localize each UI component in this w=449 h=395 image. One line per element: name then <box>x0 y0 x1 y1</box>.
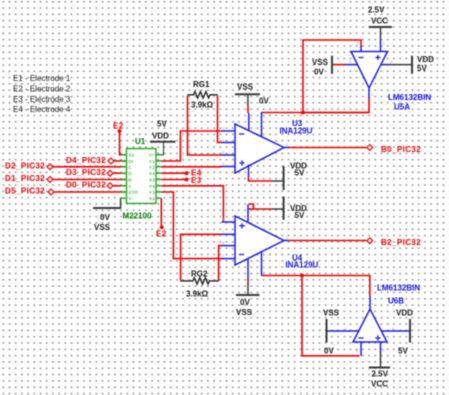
svg-text:RG1: RG1 <box>193 80 210 89</box>
wire U1 row6 to U4 IN+ <box>161 186 223 222</box>
svg-text:D0_PIC32: D0_PIC32 <box>66 181 106 190</box>
svg-text:V-: V- <box>128 196 133 202</box>
wire U4 gnd pin4 red segment <box>247 279 249 284</box>
svg-text:E2 - Electrode 2: E2 - Electrode 2 <box>13 84 71 93</box>
svg-text:0V: 0V <box>314 68 324 77</box>
wire D0_PIC32 to U1 <box>113 185 127 187</box>
svg-text:Y3: Y3 <box>149 190 155 196</box>
svg-text:D2_PIC32: D2_PIC32 <box>5 162 45 171</box>
svg-text:VSS: VSS <box>312 58 329 67</box>
node junction U5A/U3 ref <box>301 111 305 115</box>
svg-text:2.5V: 2.5V <box>368 6 385 15</box>
svg-text:Y1: Y1 <box>149 159 155 165</box>
svg-text:E3: E3 <box>191 176 202 185</box>
VDD rail above U1 <box>150 142 176 155</box>
svg-text:D3_PIC32: D3_PIC32 <box>66 168 106 177</box>
wire E2 top to U1 pin X2 <box>120 131 127 155</box>
svg-text:X1: X1 <box>149 196 155 202</box>
junction dots <box>118 111 305 278</box>
wire U1 row8 to E2 flag <box>160 198 162 226</box>
wire U5A power left red segment <box>333 64 345 66</box>
svg-text:VSS: VSS <box>94 223 111 232</box>
wire RG1 left lead to U3 RG <box>188 96 222 156</box>
wire U3 V+ pin7 to VDD bar <box>249 177 273 181</box>
node D0_PIC32 diamond <box>107 183 113 189</box>
svg-text:B2_PIC32: B2_PIC32 <box>381 238 421 247</box>
node D1_PIC32 diamond <box>47 177 53 183</box>
svg-text:E2: E2 <box>156 230 167 239</box>
svg-text:D: D <box>128 171 132 177</box>
svg-text:D5_PIC32: D5_PIC32 <box>5 187 45 196</box>
node D2_PIC32 diamond <box>47 164 53 170</box>
VSS rail above U3 <box>235 94 260 105</box>
svg-text:STR: STR <box>128 190 138 196</box>
svg-text:DI: DI <box>128 159 133 165</box>
wire U4 V+ pin7 to VDD bar <box>248 204 272 209</box>
wire U1 row7 to U4 IN- <box>161 192 222 259</box>
wire D3_PIC32 to U1 <box>113 172 127 174</box>
wire U1 row5 to E3 flag <box>161 179 185 181</box>
svg-text:VCC: VCC <box>371 379 388 388</box>
wire U1 row4 to E4 flag <box>161 172 185 174</box>
svg-text:5V: 5V <box>398 347 408 356</box>
svg-text:Y4: Y4 <box>149 184 155 190</box>
svg-text:0V: 0V <box>324 347 334 356</box>
resistor RG1 <box>188 92 218 98</box>
svg-text:VSS: VSS <box>237 83 254 92</box>
wire U4 output to B2 diamond <box>289 240 367 242</box>
svg-text:2.5V: 2.5V <box>372 370 389 379</box>
wire U5A loop: output down-left-up-right to inverting input <box>303 40 369 113</box>
analog switch U1 <box>121 137 162 220</box>
svg-text:3.9kΩ: 3.9kΩ <box>186 290 209 299</box>
wire U4 ref pin5 to junction <box>262 275 303 277</box>
wire U1 row2 to U3 IN- <box>161 131 221 161</box>
VSS bar left of U5A <box>331 56 333 74</box>
svg-text:VSS: VSS <box>323 309 340 318</box>
svg-text:5V: 5V <box>157 120 167 129</box>
op-amp U4 INA129U <box>222 205 289 280</box>
wire RG1 right lead to U3 RG <box>218 96 222 143</box>
VCC 2.5V rail below U6B <box>369 352 390 368</box>
wire RG2 right lead to U4 RG <box>219 246 222 281</box>
wire U3 ref pin5 to junction <box>262 112 370 114</box>
svg-text:VDD: VDD <box>417 55 434 64</box>
svg-text:D1_PIC32: D1_PIC32 <box>5 174 45 183</box>
svg-text:X2: X2 <box>128 153 134 159</box>
svg-text:LM6132BIN: LM6132BIN <box>377 284 420 293</box>
VCC 2.5V rail above U5A <box>369 27 392 41</box>
svg-text:U6B: U6B <box>388 297 404 306</box>
wire U1 row3 to U3 IN+ <box>161 166 221 168</box>
svg-text:0V: 0V <box>240 298 250 307</box>
svg-text:RG2: RG2 <box>191 270 208 279</box>
VSS bar left of U6B <box>326 319 328 343</box>
svg-text:INA129U: INA129U <box>285 261 318 270</box>
svg-text:LM6132BIN: LM6132BIN <box>388 93 431 102</box>
VDD rail right of U3 <box>272 166 284 190</box>
svg-text:3.9kΩ: 3.9kΩ <box>191 101 214 110</box>
node junction U6B/U4 ref <box>300 274 304 278</box>
svg-text:E3 - Electrode 3: E3 - Electrode 3 <box>13 95 71 104</box>
wire U6B loop: junction right then down to output, and down-right to inverting input <box>302 276 370 297</box>
svg-text:E2: E2 <box>113 122 124 131</box>
svg-text:V+: V+ <box>149 153 155 159</box>
svg-text:M22100: M22100 <box>123 211 152 220</box>
svg-text:E4 - Electrode 4: E4 - Electrode 4 <box>13 105 71 114</box>
node E2 bottom flag dot <box>160 225 164 229</box>
svg-text:B: B <box>128 178 131 184</box>
svg-text:VCC: VCC <box>371 17 388 26</box>
pin numbers U4 <box>222 204 289 276</box>
op-amp U5A LM6132BIN <box>345 41 389 99</box>
svg-text:U5A: U5A <box>394 103 410 112</box>
op-amp U6B LM6132BIN <box>327 296 410 356</box>
svg-text:X3: X3 <box>149 178 155 184</box>
wire RG2 left lead to U4 RG <box>181 234 222 281</box>
svg-text:D4_PIC32: D4_PIC32 <box>66 156 106 165</box>
svg-text:5V: 5V <box>417 64 427 73</box>
node E2 top flag dot <box>118 129 122 133</box>
svg-text:VDD: VDD <box>152 132 169 141</box>
node E3 flag dot <box>185 178 189 182</box>
node D3_PIC32 diamond <box>107 170 113 176</box>
node B0_PIC32 diamond <box>367 145 373 151</box>
wire D4_PIC32 to U1 <box>114 160 127 162</box>
svg-text:U1: U1 <box>135 137 146 146</box>
svg-text:X4: X4 <box>149 171 155 177</box>
pin numbers U6B <box>344 301 395 354</box>
svg-text:VDD: VDD <box>396 309 413 318</box>
node D4_PIC32 diamond <box>108 158 114 164</box>
wire U3 output to B0 diamond <box>289 147 367 149</box>
op-amp U3 INA129U <box>222 112 289 177</box>
legend electrode list <box>13 74 71 114</box>
svg-text:C: C <box>128 165 132 171</box>
VDD bar right of U5A <box>388 56 412 74</box>
wire D2_PIC32 to U1 <box>53 166 127 168</box>
wire D5_PIC32 to U1 <box>54 191 127 193</box>
ground 0V VSS below U4 <box>236 283 260 295</box>
wire D1_PIC32 to U1 <box>53 179 127 181</box>
wire U3 VSS stem red segment <box>247 106 249 114</box>
svg-text:Y2: Y2 <box>149 165 155 171</box>
ground 0V VSS below U1 <box>93 198 121 208</box>
svg-text:0V: 0V <box>100 213 110 222</box>
svg-text:5V: 5V <box>295 168 305 177</box>
resistor RG2 <box>181 278 219 284</box>
svg-text:INA129U: INA129U <box>280 126 313 135</box>
svg-text:5V: 5V <box>295 211 305 220</box>
svg-text:B0_PIC32: B0_PIC32 <box>381 145 421 154</box>
VDD rail right of U4 <box>272 196 284 219</box>
node B2_PIC32 diamond <box>367 238 373 244</box>
svg-text:0V: 0V <box>259 97 269 106</box>
pin numbers U3 <box>222 114 289 181</box>
pin numbers U5A <box>349 41 393 98</box>
VDD bar right of U6B <box>409 319 411 343</box>
node D5_PIC32 diamond <box>48 189 54 195</box>
node E4 flag dot <box>185 171 189 175</box>
svg-text:E1 - Electrode 1: E1 - Electrode 1 <box>13 74 71 83</box>
svg-text:VSS: VSS <box>236 308 253 317</box>
